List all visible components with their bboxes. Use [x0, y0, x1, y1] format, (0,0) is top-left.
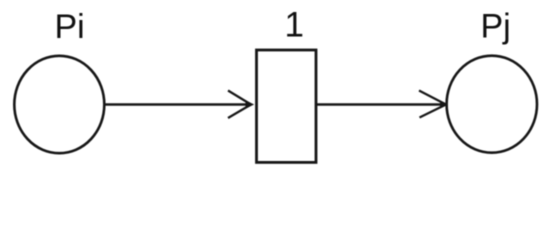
wire arc T1 to Pj	[316, 103, 444, 106]
transition T1 rectangle	[257, 50, 317, 162]
place Pj	[447, 56, 537, 153]
wire arc Pi to T1	[105, 103, 250, 106]
svg-text:Pj: Pj	[481, 8, 511, 46]
svg-text:Pi: Pi	[55, 8, 85, 46]
place Pi	[14, 56, 104, 153]
arrowhead arc T1 to Pj	[419, 91, 447, 118]
svg-text:1: 1	[285, 6, 304, 45]
arrowhead arc Pi to T1	[228, 91, 253, 119]
